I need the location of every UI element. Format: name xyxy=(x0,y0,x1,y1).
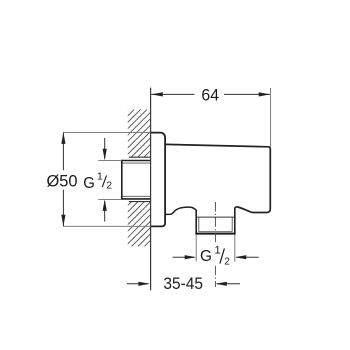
svg-text:2: 2 xyxy=(106,181,112,192)
svg-text:Ø50: Ø50 xyxy=(47,172,78,190)
dim G1/2 outlet extensions xyxy=(195,235,197,262)
svg-text:2: 2 xyxy=(224,256,230,267)
wall hole top edge xyxy=(129,156,151,158)
dim G1/2 inlet arrows xyxy=(104,138,106,159)
wall surface line xyxy=(150,88,152,291)
inlet male thread G1/2 behind wall xyxy=(122,160,151,200)
wall hole bottom edge xyxy=(129,201,151,203)
outlet thread G1/2 xyxy=(195,208,235,234)
svg-text:G: G xyxy=(83,175,95,192)
dim G1/2 inlet extensions xyxy=(98,159,122,161)
svg-text:1: 1 xyxy=(215,245,221,257)
svg-text:1: 1 xyxy=(97,172,103,183)
dim 64 extension right xyxy=(270,88,272,147)
elbow body underside left curve xyxy=(165,207,196,214)
dim G1/2 outlet arrows xyxy=(173,256,195,258)
wall hatching lower xyxy=(85,200,197,248)
elbow body outline xyxy=(165,144,270,212)
dim O50 extensions xyxy=(63,131,151,133)
svg-text:64: 64 xyxy=(201,87,219,105)
outlet centerline xyxy=(214,202,216,244)
dim O50 line xyxy=(62,133,64,227)
svg-text:G: G xyxy=(200,248,212,265)
dim 64 line xyxy=(151,93,270,95)
dim 35-45 arrows xyxy=(127,283,148,285)
svg-text:35-45: 35-45 xyxy=(163,274,203,293)
wall hatching upper xyxy=(79,107,200,158)
flange escutcheon xyxy=(151,133,166,227)
